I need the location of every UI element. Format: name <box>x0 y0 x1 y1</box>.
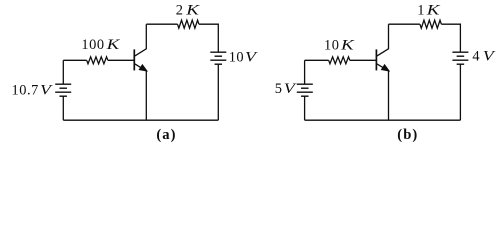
svg-text:10.7: 10.7 <box>12 82 39 98</box>
svg-text:K: K <box>340 36 355 52</box>
svg-text:(a): (a) <box>156 127 176 143</box>
wire: battery V4 negative to bottom rail <box>459 64 461 120</box>
svg-text:K: K <box>105 36 120 52</box>
battery V2 10V plates <box>210 52 226 64</box>
wire: top wire collector to resistor R4 <box>389 23 420 25</box>
wire: resistor R1 to base of Q1 <box>108 59 134 61</box>
battery V1 10.7V plates <box>55 84 71 96</box>
wire: battery V1 positive up to base wire <box>62 60 64 84</box>
wire: bottom rail of circuit (b) <box>305 119 461 121</box>
wire: top wire collector to resistor R2 <box>146 23 177 25</box>
transistor Q2 emitter lead <box>377 64 389 120</box>
wire: battery V3 negative to bottom rail <box>304 96 306 120</box>
resistor R1 100K (zigzag) <box>87 57 108 64</box>
battery V4 4V plates <box>452 52 468 64</box>
wire: resistor R3 to base of Q2 <box>350 59 376 61</box>
wire: battery V2 negative to bottom rail <box>217 64 219 120</box>
transistor Q2 emitter arrowhead <box>381 65 389 71</box>
svg-text:10: 10 <box>229 49 245 65</box>
transistor Q2 collector lead <box>377 24 389 56</box>
transistor Q2 base bar <box>375 49 377 70</box>
transistor Q1 collector lead <box>135 24 146 56</box>
svg-text:K: K <box>426 2 441 18</box>
resistor R2 2K (zigzag) <box>178 20 199 28</box>
wire: battery V3 positive up to base wire <box>304 60 306 84</box>
wire: resistor R4 to battery V4 <box>441 24 460 51</box>
wire: battery V1 negative to bottom rail <box>62 96 64 120</box>
svg-text:10: 10 <box>324 37 340 53</box>
wire: resistor R2 to battery V2 <box>199 24 218 51</box>
wire: base wire from battery V3 to resistor R3 <box>305 59 329 61</box>
svg-text:K: K <box>185 2 200 18</box>
svg-text:1: 1 <box>417 3 425 19</box>
svg-text:5: 5 <box>275 81 283 97</box>
svg-text:2: 2 <box>176 3 184 19</box>
svg-text:100: 100 <box>81 37 104 53</box>
svg-text:V: V <box>245 48 258 65</box>
resistor R4 1K (zigzag) <box>420 20 441 28</box>
wire: base wire from battery V1 to resistor R1 <box>63 59 86 61</box>
transistor Q1 emitter arrowhead <box>139 65 147 71</box>
svg-text:4: 4 <box>472 48 480 64</box>
svg-text:(b): (b) <box>397 127 418 143</box>
svg-text:V: V <box>483 47 496 64</box>
resistor R3 10K (zigzag) <box>329 57 350 64</box>
battery V3 5V plates <box>297 84 313 96</box>
wire: bottom rail of circuit (a) <box>63 119 218 121</box>
transistor Q1 emitter lead <box>135 64 146 120</box>
transistor Q1 base bar <box>133 49 135 70</box>
svg-text:V: V <box>40 81 53 98</box>
svg-text:V: V <box>284 80 297 97</box>
